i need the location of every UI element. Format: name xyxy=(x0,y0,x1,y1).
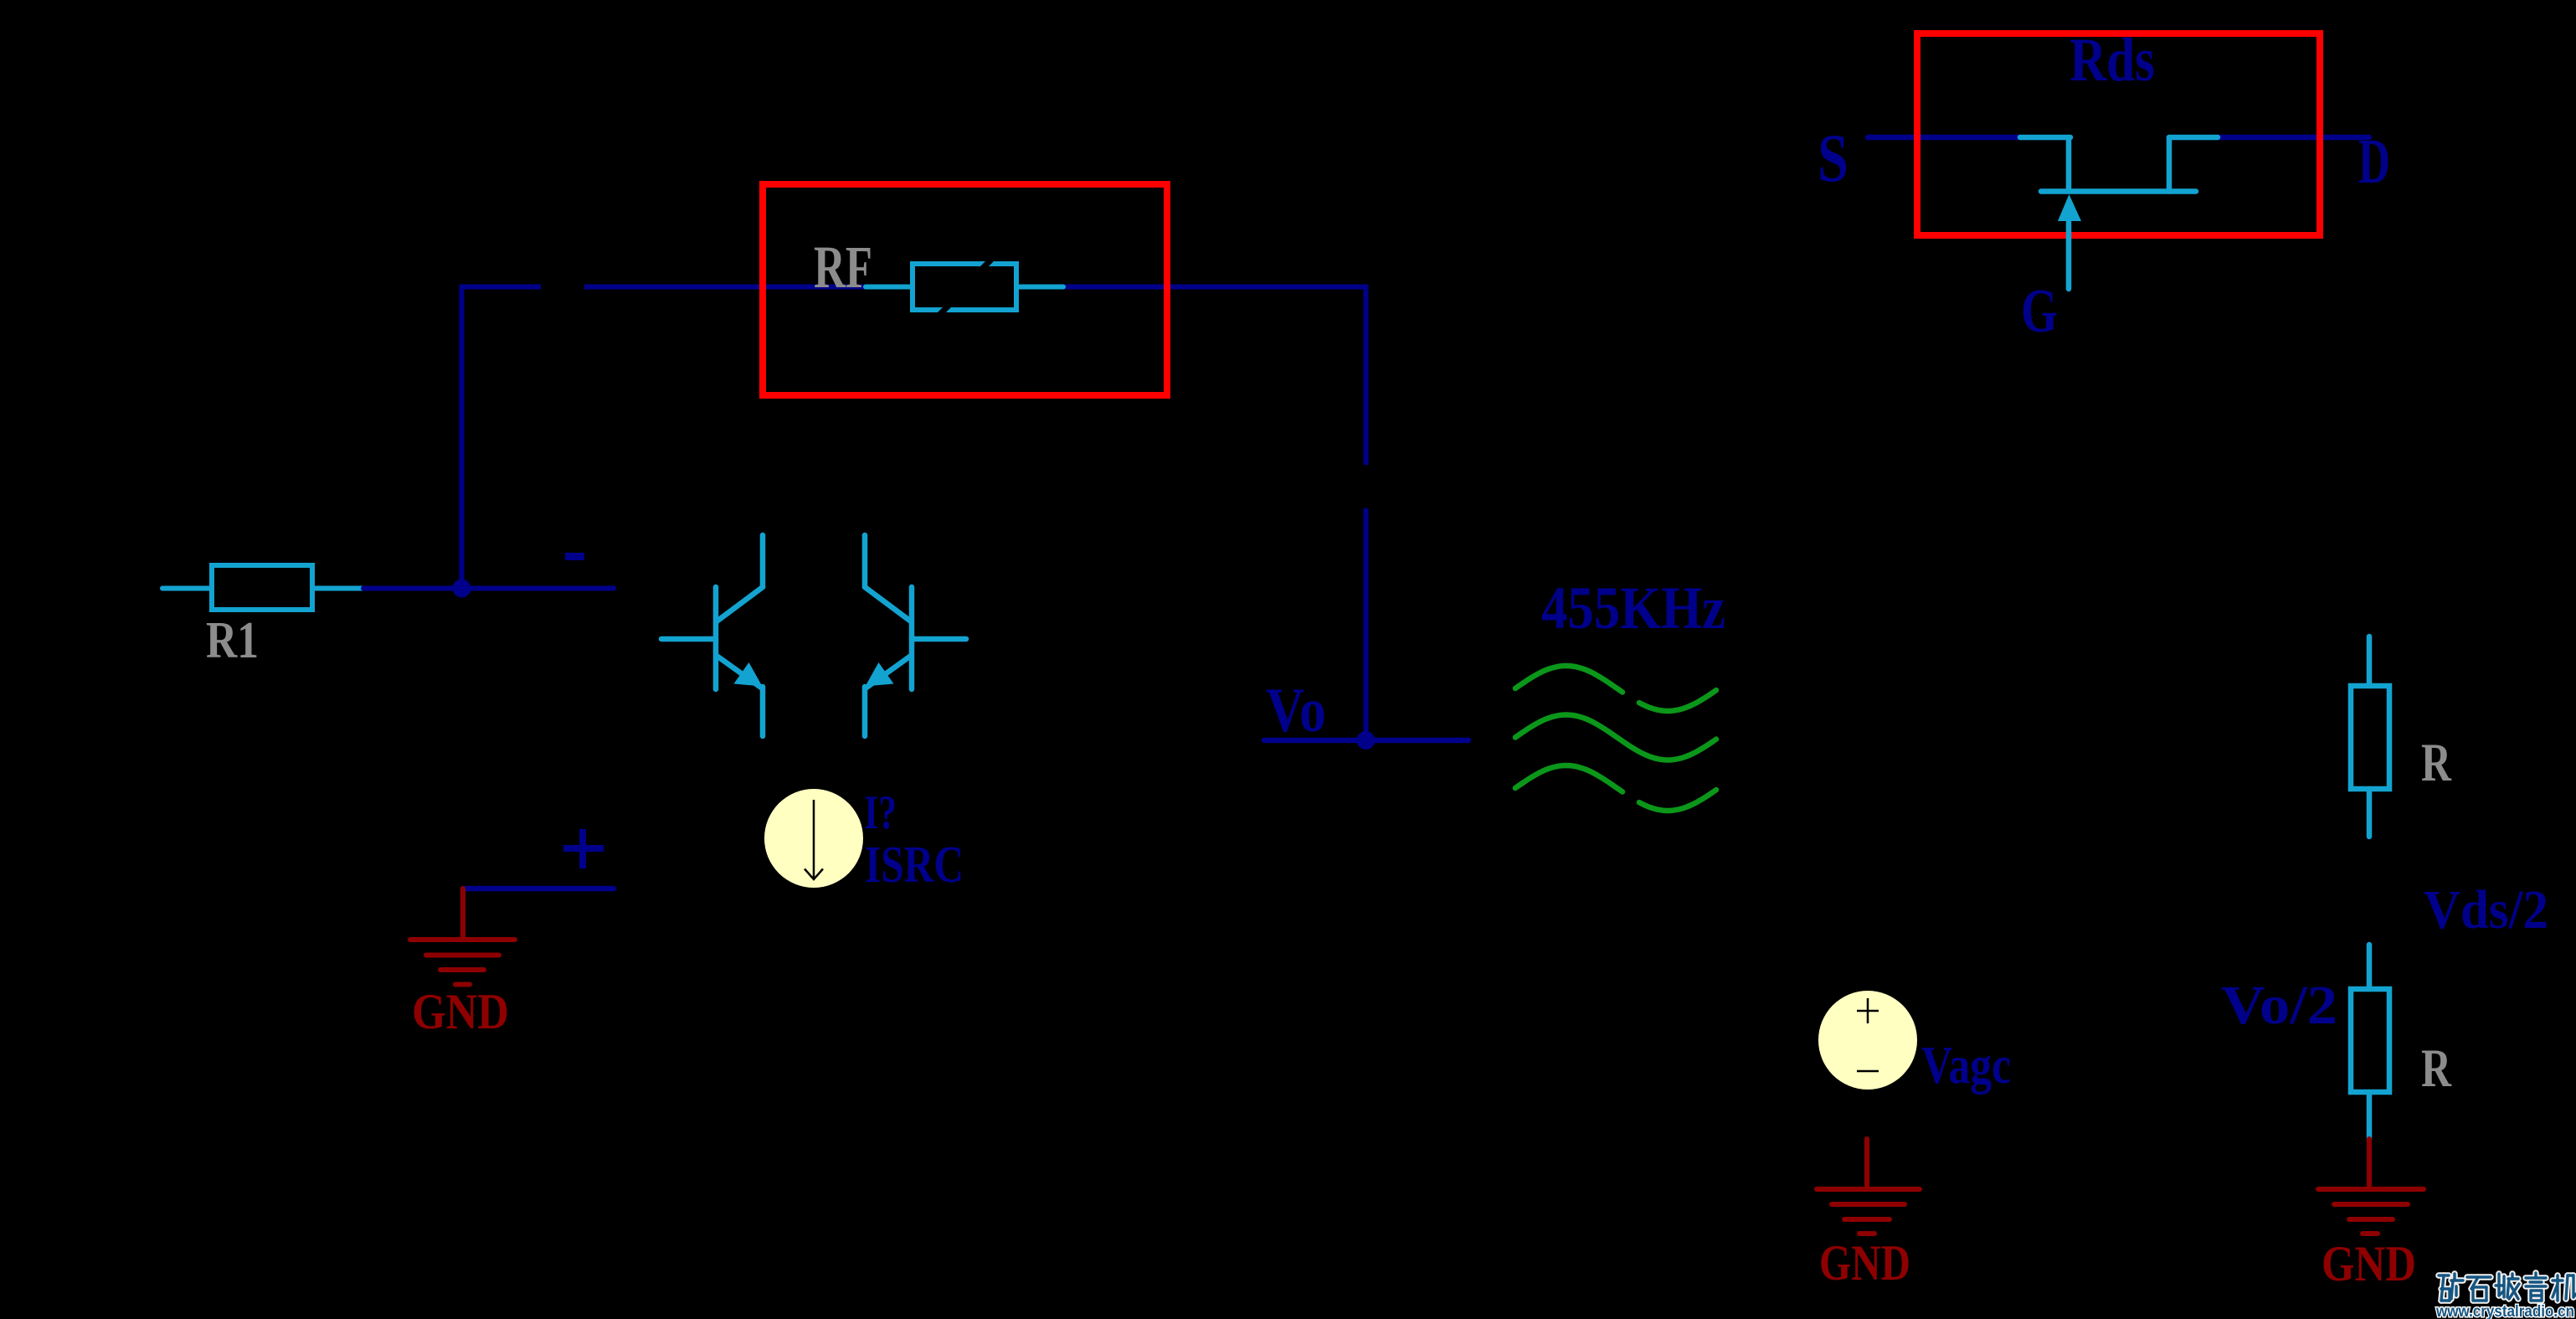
ground (middle GND) xyxy=(1817,1139,1920,1234)
node Vo junction xyxy=(1357,731,1375,750)
svg-text:Rds: Rds xyxy=(2070,26,2155,95)
transistor Q2 (right of diff pair) xyxy=(865,535,966,736)
svg-text:RF: RF xyxy=(814,234,872,301)
svg-text:R: R xyxy=(2421,1038,2452,1099)
wire segment to RF after gap xyxy=(584,285,866,290)
resistor R (bottom right) xyxy=(2351,989,2389,1139)
wire node Vds/2 xyxy=(2367,945,2373,989)
svg-text:Vo: Vo xyxy=(1266,676,1326,745)
svg-text:www.crystalradio.cn: www.crystalradio.cn xyxy=(2435,1303,2574,1319)
signal wave 1 xyxy=(1515,666,1622,693)
wire junction up to RF (left segment) xyxy=(462,287,542,589)
minus sign (inverting input) xyxy=(565,553,584,560)
signal wave 2 xyxy=(1515,715,1716,760)
plus sign (non-inverting input) xyxy=(563,829,604,868)
svg-text:Vagc: Vagc xyxy=(1921,1036,2011,1095)
red highlight box around Rds xyxy=(1917,33,2320,235)
resistor R (top right) xyxy=(2351,636,2389,837)
transistor JFET (Rds) xyxy=(2020,137,2218,289)
svg-text:I?: I? xyxy=(864,786,897,839)
wire Vo horizontal xyxy=(1264,738,1468,744)
wire segment down to Vo xyxy=(1364,508,1369,740)
transistor Q1 (left of diff pair) xyxy=(661,535,763,736)
wire RF to output node xyxy=(1063,287,1366,466)
svg-text:GND: GND xyxy=(1819,1235,1910,1291)
signal wave 3 xyxy=(1515,765,1622,792)
wire D xyxy=(2218,135,2369,141)
node junction at R1/feedback xyxy=(453,580,471,598)
svg-text:GND: GND xyxy=(2321,1236,2416,1291)
svg-text:S: S xyxy=(1818,120,1848,196)
voltage source Vagc xyxy=(1818,991,1917,1090)
svg-text:Vds/2: Vds/2 xyxy=(2424,879,2548,940)
svg-text:Vo/2: Vo/2 xyxy=(2221,975,2337,1036)
resistor RF (adjustable) xyxy=(866,264,1063,310)
red highlight box around RF xyxy=(763,184,1167,395)
current source ISRC xyxy=(764,789,863,888)
svg-text:R: R xyxy=(2421,733,2452,793)
svg-text:D: D xyxy=(2358,126,2390,197)
svg-text:G: G xyxy=(2021,277,2058,346)
svg-text:455KHz: 455KHz xyxy=(1541,574,1725,641)
svg-text:ISRC: ISRC xyxy=(865,837,964,894)
wire S xyxy=(1868,135,2020,141)
watermark logo 矿石收音机 xyxy=(2439,1273,2576,1301)
svg-text:R1: R1 xyxy=(206,612,259,669)
wire R1 to inverting input xyxy=(363,586,614,591)
ground (right GND) xyxy=(2318,1139,2424,1234)
ground (left GND) xyxy=(410,889,515,985)
wire plus input to ground xyxy=(463,886,614,892)
svg-text:GND: GND xyxy=(412,984,509,1039)
resistor R1 xyxy=(162,565,363,610)
